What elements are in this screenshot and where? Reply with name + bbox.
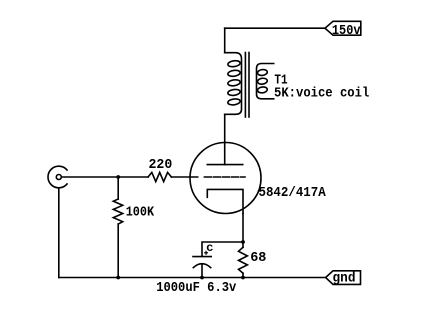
svg-text:220: 220 bbox=[149, 158, 173, 173]
svg-text:5K:voice coil: 5K:voice coil bbox=[274, 87, 369, 102]
wire transformer primary top lead bbox=[224, 28, 226, 53]
svg-text:68: 68 bbox=[250, 251, 266, 266]
junction cathode node bbox=[241, 240, 245, 244]
resistor R2 100K bbox=[113, 199, 122, 224]
wire ground bus bbox=[59, 277, 326, 279]
tube V1 cathode bbox=[207, 189, 243, 213]
wire jack shield down bbox=[58, 188, 60, 278]
junction R2 bottom bbox=[116, 276, 120, 280]
connector J1 input jack bbox=[48, 166, 67, 188]
wire input from jack to R1 bbox=[61, 176, 148, 178]
junction at grid node bbox=[116, 175, 120, 179]
capacitor C1 curved plate bbox=[193, 264, 210, 268]
ground tag gnd bbox=[326, 271, 361, 285]
tube V1 plate bbox=[207, 164, 242, 166]
capacitor C1 polarity plus bbox=[205, 251, 208, 254]
resistor R3 68 bbox=[239, 247, 248, 273]
junction capacitor bottom bbox=[200, 276, 204, 280]
svg-text:gnd: gnd bbox=[333, 272, 356, 287]
svg-text:C: C bbox=[206, 244, 213, 255]
wire cathode to node bbox=[242, 214, 244, 243]
svg-text:100K: 100K bbox=[126, 206, 155, 221]
transformer T1 secondary winding bbox=[257, 64, 274, 99]
wire from transformer top to 150v tag bbox=[225, 27, 325, 29]
svg-text:150v: 150v bbox=[332, 23, 361, 39]
junction R3 bottom bbox=[241, 276, 245, 280]
wire R3 bottom lead bbox=[242, 273, 244, 277]
tube V1 grid (dashed) bbox=[204, 176, 245, 178]
transformer T1 primary winding bbox=[225, 53, 242, 115]
tube V1 envelope bbox=[190, 143, 261, 214]
power tag 150v bbox=[325, 21, 361, 35]
wire R2 top lead bbox=[117, 177, 119, 199]
wire R2 bottom lead bbox=[117, 224, 119, 277]
resistor R1 220 bbox=[148, 172, 171, 181]
wire capacitor bottom lead bbox=[201, 264, 203, 278]
transformer T1 core bbox=[245, 53, 249, 118]
capacitor C1 top plate bbox=[193, 256, 211, 258]
wire plate lead from transformer to tube bbox=[224, 114, 226, 164]
wire R3 top lead bbox=[242, 242, 244, 247]
wire from R1 to grid bbox=[171, 176, 197, 178]
svg-text:1000uF 6.3v: 1000uF 6.3v bbox=[156, 280, 237, 296]
wire node to capacitor bbox=[202, 242, 243, 256]
svg-text:5842/417A: 5842/417A bbox=[259, 185, 327, 201]
